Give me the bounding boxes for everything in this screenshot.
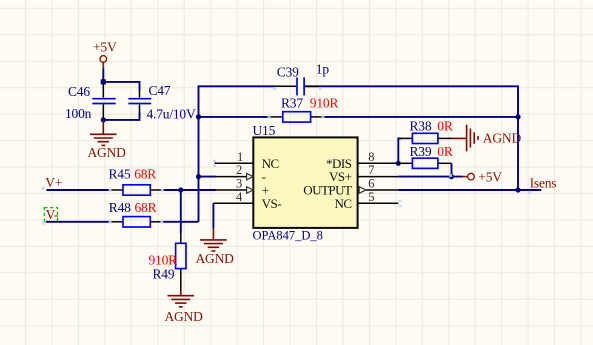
pin 7: [357, 176, 398, 178]
svg-text:+5V: +5V: [93, 40, 117, 55]
svg-text:AGND: AGND: [88, 145, 127, 160]
junction pin8: [396, 161, 401, 166]
ground AGND (under C46): [90, 120, 117, 145]
wire junction to C47 top: [103, 82, 139, 91]
svg-text:AGND: AGND: [196, 251, 235, 266]
pin 4: [213, 202, 253, 204]
svg-text:R38: R38: [410, 118, 432, 133]
svg-text:68R: 68R: [134, 166, 156, 181]
wire output row (Isens): [398, 189, 541, 191]
wire R37 row: [199, 116, 519, 118]
junction pin2: [196, 174, 201, 179]
pin 1: [215, 162, 254, 164]
svg-text:R48: R48: [109, 200, 131, 215]
ground AGND (pin 4): [200, 229, 227, 252]
net label V- (selected, green dashes): [44, 208, 57, 222]
svg-text:2: 2: [236, 163, 242, 177]
power symbol +5V (right): [463, 169, 503, 184]
wire V- row: [46, 221, 199, 223]
svg-text:U15: U15: [253, 123, 276, 138]
svg-text:AGND: AGND: [165, 309, 204, 324]
svg-text:R45: R45: [109, 166, 131, 181]
wire pin4 to ground: [212, 203, 214, 228]
svg-text:1p: 1p: [316, 62, 330, 77]
resistor R49: [149, 233, 187, 290]
resistor R38: [400, 118, 453, 143]
wire +5V stem: [102, 69, 104, 82]
junction R39/pin7: [449, 174, 454, 179]
svg-text:Isens: Isens: [530, 175, 557, 190]
svg-text:V-: V-: [46, 207, 59, 222]
power symbol +5V (top-left): [93, 40, 117, 69]
wire inverting feedback vertical: [198, 117, 200, 222]
attach markers (pale blue): [42, 87, 531, 225]
resistor R37: [270, 96, 338, 123]
svg-text:6: 6: [368, 177, 374, 191]
pin 3: [215, 189, 248, 191]
pin 5: [357, 202, 398, 204]
wire R49 branch vertical: [180, 190, 182, 233]
wire C39 top loop: [199, 86, 519, 117]
svg-text:+5V: +5V: [478, 169, 502, 184]
ground AGND (under R49): [168, 290, 195, 307]
svg-text:0R: 0R: [437, 144, 453, 159]
svg-text:100n: 100n: [65, 106, 92, 121]
svg-text:7: 7: [368, 163, 374, 177]
resistor R45: [109, 166, 164, 195]
svg-text:R37: R37: [281, 96, 303, 111]
pin 8: [357, 162, 398, 164]
pin end markers (pale blue): [213, 160, 402, 208]
junction R37 left: [196, 114, 201, 119]
svg-text:R49: R49: [153, 267, 175, 282]
capacitor C39: [276, 62, 329, 96]
junction R37/C39 right: [515, 114, 520, 119]
svg-text:V+: V+: [45, 175, 62, 190]
svg-text:4: 4: [236, 190, 243, 204]
junction at C46/C47 bottom: [101, 117, 106, 122]
svg-text:R39: R39: [410, 144, 432, 159]
svg-text:OPA847_D_8: OPA847_D_8: [253, 229, 323, 243]
pin 6 (output): [366, 189, 398, 191]
op-amp U15 body: [253, 137, 357, 228]
wire pin2 stub from vertical: [199, 176, 217, 178]
junction V+ / R49: [178, 187, 183, 192]
svg-text:AGND: AGND: [483, 131, 522, 146]
svg-text:5: 5: [368, 190, 374, 204]
wire pin7 to +5V: [398, 176, 462, 178]
svg-text:3: 3: [236, 177, 242, 191]
capacitor C46: [65, 84, 116, 121]
ground AGND (rotated, after R38): [453, 125, 478, 152]
svg-text:0R: 0R: [437, 118, 453, 133]
wire C47 bottom to junction: [103, 113, 139, 120]
capacitor C47: [128, 83, 196, 121]
svg-text:8: 8: [368, 150, 374, 164]
svg-text:C47: C47: [149, 83, 171, 98]
svg-text:910R: 910R: [149, 252, 178, 267]
wire V+ row: [47, 189, 216, 191]
svg-text:NC: NC: [334, 196, 351, 211]
pin 2: [216, 176, 247, 178]
junction output/right vertical: [515, 187, 520, 192]
svg-text:C39: C39: [277, 65, 299, 80]
wire pin8 riser to R38: [398, 138, 402, 163]
svg-text:C46: C46: [68, 84, 90, 99]
svg-text:910R: 910R: [310, 96, 339, 111]
svg-text:VS-: VS-: [262, 196, 282, 211]
junction at +5V / C46 / C47: [101, 79, 106, 84]
svg-text:68R: 68R: [135, 200, 157, 215]
wire right vertical to output: [517, 117, 519, 190]
wire R39 to pin7 net: [451, 163, 453, 176]
resistor R39: [398, 144, 453, 168]
svg-text:1: 1: [237, 150, 243, 164]
svg-text:4.7u/10V: 4.7u/10V: [147, 106, 196, 121]
resistor R48: [109, 200, 162, 227]
